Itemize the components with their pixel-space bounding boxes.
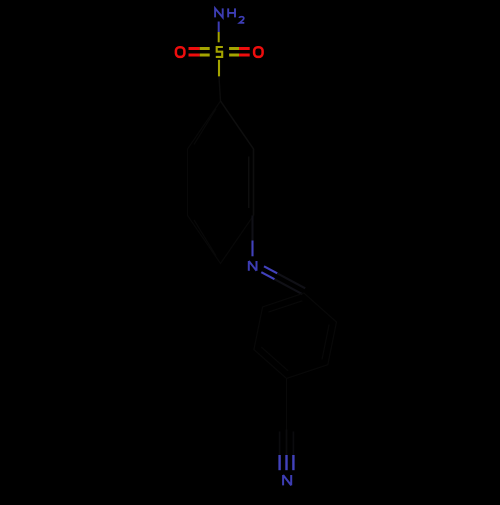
- wire: C#N triple bond right line: [292, 432, 294, 456]
- wire: C-N imine bond (C half, dark): [251, 216, 253, 241]
- wire: C-CN single bond (dark): [286, 379, 288, 430]
- wire: S=O left double bond upper line: [189, 47, 200, 50]
- wire: S=O right double bond lower line: [229, 54, 239, 57]
- node: O label right: [254, 47, 263, 57]
- wire: C#N triple bond left line: [279, 432, 281, 456]
- wire: S=O left double bond lower line: [189, 54, 200, 57]
- node: nitrile N label: [283, 475, 291, 485]
- wire: N=C double bond upper line (blue half then dark half): [264, 266, 277, 273]
- wire: C-N imine bond (N half, blue): [251, 241, 253, 257]
- wire: S-C bond (C half, dark): [219, 76, 221, 101]
- benzene ring 1 right edges (slightly more visible in source): [221, 101, 254, 216]
- wire: S-C bond (S half, olive): [218, 60, 220, 77]
- wire: N-S bond (amide N half, blue): [218, 22, 220, 33]
- wire: N-S bond (S half, olive): [218, 32, 220, 42]
- benzene ring 1: [188, 101, 254, 264]
- node: S label: [216, 47, 223, 57]
- wire: N=C double bond lower line (blue half then dark half): [261, 272, 274, 279]
- wire: S=O right double bond upper line: [229, 47, 239, 50]
- node: imine N label: [249, 261, 257, 271]
- benzene ring 2: [254, 293, 337, 378]
- wire: C#N triple bond middle line: [286, 430, 288, 456]
- node: sulfonamide NH2 label: [215, 8, 244, 23]
- node: O label left: [176, 47, 185, 57]
